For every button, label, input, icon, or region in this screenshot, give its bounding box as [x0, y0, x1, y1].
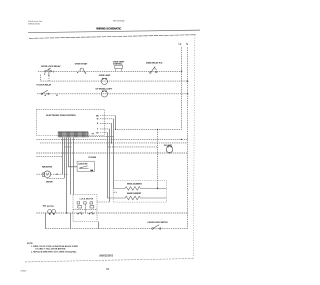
switch bake relay row1: [150, 66, 158, 73]
wire bottom y228.6: [46, 228, 188, 230]
lamp ov signal light: [101, 91, 107, 97]
svg-text:OVEN LIGHT: OVEN LIGHT: [99, 75, 111, 77]
svg-text:NOTE:: NOTE:: [27, 243, 34, 245]
wire fan lower stub: [47, 177, 64, 179]
wire comb drop x70.7: [70, 137, 72, 194]
switch contacts lock bottom: [77, 213, 93, 214]
header publication text: [28, 20, 43, 26]
svg-text:59502: 59502: [21, 270, 28, 272]
wire comb under-run y139.2: [36, 138, 187, 140]
lamp oven cavity: [166, 146, 173, 153]
svg-text:WIRING SCHEMATIC: WIRING SCHEMATIC: [96, 26, 121, 30]
svg-text:FEF356ASA: FEF356ASA: [113, 20, 125, 23]
wire comb drop x64.3: [64, 137, 66, 178]
svg-text:ELECTRONIC OVEN CONTROL: ELECTRONIC OVEN CONTROL: [46, 115, 76, 117]
thermostat contact dots: [77, 72, 78, 73]
junction dot y142.9: [111, 142, 112, 143]
switch hi lock relay row B: [41, 90, 49, 94]
wire fan stub left: [36, 173, 44, 175]
svg-text:HI LOCK RELAY: HI LOCK RELAY: [37, 84, 52, 87]
resistor bake element: [107, 196, 166, 200]
contact dots TOD: [49, 213, 51, 215]
wire mid y146.9 right segment: [108, 146, 158, 148]
relay box door latch: [77, 161, 94, 171]
svg-text:OVEN TSTAT: OVEN TSTAT: [75, 63, 88, 66]
resistor broil element: [113, 187, 166, 191]
svg-text:# DOOR LOCK SWITCH: # DOOR LOCK SWITCH: [148, 222, 169, 224]
svg-text:FAN MOTOR: FAN MOTOR: [42, 166, 53, 169]
wire comb drop x73.4: [73, 137, 75, 194]
wire mid y146.9 left segment: [64, 146, 71, 148]
wire lock center: [85, 204, 87, 213]
wire motor drop x45.6: [45, 213, 47, 229]
junction dot row B N: [187, 93, 189, 95]
junction dot row A N: [187, 80, 189, 82]
wire lock inner horizontal: [73, 208, 97, 210]
coil boxes lock: [78, 205, 94, 208]
junction dots L2 drop: [157, 129, 158, 130]
wire N bus vertical: [187, 47, 189, 228]
svg-text:LOCK MOTOR: LOCK MOTOR: [80, 198, 94, 200]
svg-text:BROIL ELEMENT: BROIL ELEMENT: [127, 184, 143, 186]
svg-text:2. REPLACE WIRE WITH 105°C WIR: 2. REPLACE WIRE WITH 105°C WIRE OR EQUIV…: [31, 250, 77, 253]
wire drop x98.3: [98, 222, 100, 229]
wire row B: [37, 93, 188, 95]
junction dot y212: [66, 212, 67, 213]
terminal comb strip: [58, 132, 88, 137]
wire drop x70: [70, 213, 72, 229]
component oven temp control: [115, 65, 123, 68]
EOC box electronic oven control: [36, 109, 104, 135]
wire comb drop x62.3: [62, 137, 64, 174]
header rule: [28, 30, 200, 33]
frame top edge: [29, 35, 196, 39]
notes block: [27, 243, 79, 253]
wire fan to bundle: [51, 173, 69, 175]
svg-text:5995323562: 5995323562: [99, 255, 114, 258]
svg-text:1. WIRE COLOR CODE: W-WHITE BK: 1. WIRE COLOR CODE: W-WHITE BK-BLACK R-R…: [31, 245, 79, 248]
motor TOD double loop: [48, 210, 56, 214]
wire row1: [38, 70, 182, 72]
lock assembly box: [73, 195, 97, 222]
motor fan: [42, 171, 50, 178]
switch door lock bottom: [152, 225, 161, 230]
wire comb drop x66.3: [66, 137, 68, 213]
thermostat oven tstat: [80, 68, 85, 73]
svg-text:P8 CONN: P8 CONN: [89, 157, 97, 159]
wire short y156.4: [36, 155, 62, 157]
wire long y153: [36, 152, 187, 154]
wire comb rail extension: [88, 135, 114, 137]
wire row A: [41, 75, 188, 82]
svg-text:BAKE ELEMENT: BAKE ELEMENT: [127, 192, 142, 195]
terminal row lock box: [77, 202, 93, 204]
wire long y212.2: [36, 212, 187, 214]
svg-text:OV SIGNAL LIGHT: OV SIGNAL LIGHT: [96, 88, 113, 91]
wire lamp feed y142.9: [40, 142, 188, 144]
switch inside latch box: [79, 166, 89, 169]
svg-text:MOTOR: MOTOR: [47, 206, 54, 208]
lamp oven light: [101, 78, 107, 84]
contact block latch: [90, 170, 93, 172]
oven cavity dashed box: [113, 181, 166, 203]
svg-text:P7: P7: [92, 133, 94, 135]
svg-text:GY-GRAY Y-YELLOW BR-BROWN: GY-GRAY Y-YELLOW BR-BROWN: [35, 247, 66, 250]
junction dot lamp bottom: [169, 152, 170, 153]
wire L2 drop to broil: [157, 129, 159, 188]
junction dots row B: [45, 95, 46, 96]
wire elbow to lock box: [97, 201, 110, 203]
svg-text:5995323562: 5995323562: [28, 23, 41, 25]
wire vertical x49: [48, 76, 50, 82]
wire elbow sensor stub: [114, 191, 118, 193]
wire vertical bundle: [115, 116, 117, 130]
svg-text:DOOR LOCK RELAY: DOOR LOCK RELAY: [41, 65, 61, 68]
junction dot fan wire: [56, 174, 57, 175]
wire comb drop x68.3: [69, 137, 78, 166]
switch door lock relay contacts row1: [45, 68, 54, 75]
svg-text:LATCH SW: LATCH SW: [78, 162, 87, 165]
junction dot L2 row1: [181, 71, 183, 73]
junction dot y139.7: [181, 139, 182, 140]
svg-text:CONTROL: CONTROL: [113, 64, 123, 66]
wire L2 bus vertical: [116, 47, 182, 129]
svg-text:BAKE RELAY N.O.: BAKE RELAY N.O.: [146, 61, 163, 64]
frame bottom edge: [25, 259, 193, 262]
junction dot bundle L2 elbow: [115, 129, 116, 130]
frame right edge: [193, 35, 195, 259]
svg-text:MOTOR: MOTOR: [46, 181, 53, 183]
junction dots under row1 switch: [44, 73, 45, 74]
